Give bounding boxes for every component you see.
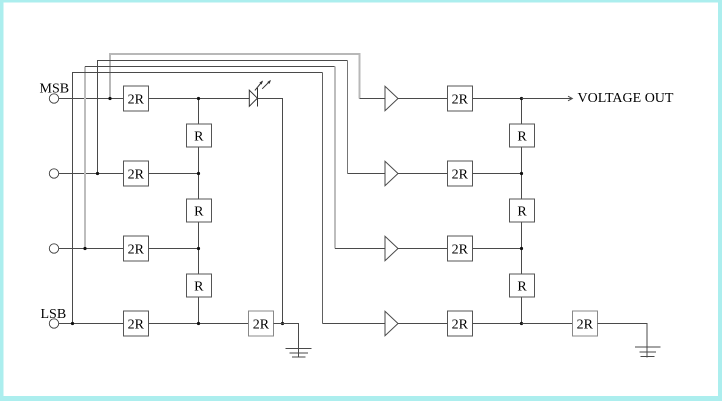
wire bit2 routing to buffer 2 <box>98 61 348 174</box>
junction LSB row / LED branch <box>281 322 284 325</box>
wire buffer2 output <box>398 173 447 175</box>
ground right <box>635 347 661 357</box>
resistor R ladder right 2 <box>510 199 535 222</box>
junction left ladder node 3 <box>197 247 200 250</box>
wire buffer1 output <box>398 98 447 100</box>
svg-text:R: R <box>194 279 204 294</box>
svg-text:VOLTAGE OUT: VOLTAGE OUT <box>578 91 674 106</box>
wire buffer4 output <box>398 323 447 325</box>
svg-text:R: R <box>517 204 527 219</box>
LED D1 <box>249 80 270 106</box>
wire terminator to right ground <box>597 324 647 358</box>
wire 2R out3 to right ladder <box>472 248 521 250</box>
wire LSB row to left ground <box>273 324 298 358</box>
wire bit3 routing to buffer 3 <box>84 67 86 249</box>
resistor R ladder left 1 <box>186 124 211 147</box>
svg-text:R: R <box>517 279 527 294</box>
wire LSB routing to buffer 4 <box>73 73 323 324</box>
svg-text:R: R <box>194 129 204 144</box>
resistor R ladder right 1 <box>510 124 535 147</box>
junction right ladder node 1 <box>520 97 523 100</box>
wire LED output down to LSB row <box>258 99 283 324</box>
wire row1 left: 2R to LED <box>148 98 249 100</box>
resistor R ladder left 3 <box>186 274 211 297</box>
svg-text:2R: 2R <box>577 317 594 332</box>
ground left <box>286 348 312 357</box>
op-amp buffer U3 <box>385 236 398 260</box>
resistor 2R out3 <box>447 236 472 261</box>
wire row3 left: 2R to ladder node <box>148 248 198 250</box>
svg-text:R: R <box>194 204 204 219</box>
wire bit2 row input <box>59 173 124 175</box>
resistor R ladder right 3 <box>510 274 535 297</box>
input terminal bit2 <box>49 169 58 178</box>
resistor 2R bit2 <box>123 161 148 186</box>
svg-text:2R: 2R <box>452 167 469 182</box>
junction right ladder node 2 <box>520 172 523 175</box>
input terminal LSB <box>49 319 58 328</box>
wire 2R out2 to right ladder <box>472 173 521 175</box>
junction left ladder node 2 <box>197 172 200 175</box>
svg-text:2R: 2R <box>128 317 145 332</box>
wire MSB row input <box>59 98 124 100</box>
wire right ladder node4 to terminator <box>522 323 573 325</box>
resistor 2R out2 <box>447 161 472 186</box>
resistor 2R bit1 <box>123 86 148 111</box>
junction MSB input node <box>108 97 111 100</box>
junction right ladder node 3 <box>520 247 523 250</box>
wire 2R out1 to right ladder <box>472 98 521 100</box>
svg-text:2R: 2R <box>253 317 270 332</box>
junction bit3 input node <box>83 247 86 250</box>
junction left ladder node 4 <box>197 322 200 325</box>
svg-text:2R: 2R <box>452 92 469 107</box>
input terminal bit3 <box>49 244 58 253</box>
svg-text:R: R <box>517 129 527 144</box>
resistor R ladder left 2 <box>186 199 211 222</box>
svg-text:2R: 2R <box>128 242 145 257</box>
svg-text:2R: 2R <box>128 92 145 107</box>
wire left ladder vertical <box>198 99 200 324</box>
wire row2 left: 2R to ladder node <box>148 173 198 175</box>
resistor 2R out4 <box>447 311 472 336</box>
wire voltage out with arrow <box>522 96 573 101</box>
wire bit3 row input <box>59 248 124 250</box>
junction LSB input node <box>71 322 74 325</box>
junction left ladder node 1 <box>197 97 200 100</box>
wire row4 left: 2R to terminator 2R <box>148 323 248 325</box>
wire buffer3 output <box>398 248 447 250</box>
resistor 2R bit3 <box>123 236 148 261</box>
svg-text:2R: 2R <box>452 242 469 257</box>
wire MSB routing to buffer 1 (up over top and down) <box>110 54 360 99</box>
wire right ladder vertical <box>521 99 523 324</box>
resistor 2R terminator (LSB row left) <box>248 311 273 336</box>
wire 2R out4 to right ladder <box>472 323 521 325</box>
junction right ladder node 4 <box>520 322 523 325</box>
op-amp buffer U4 <box>385 311 398 335</box>
svg-text:2R: 2R <box>128 167 145 182</box>
junction bit2 input node <box>96 172 99 175</box>
op-amp buffer U2 <box>385 161 398 185</box>
resistor 2R terminator right <box>572 311 597 336</box>
resistor 2R out1 <box>447 86 472 111</box>
op-amp buffer U1 <box>385 86 398 110</box>
input terminal MSB <box>49 94 58 103</box>
resistor 2R bit4 <box>123 311 148 336</box>
wire LSB row input <box>59 323 124 325</box>
svg-text:2R: 2R <box>452 317 469 332</box>
